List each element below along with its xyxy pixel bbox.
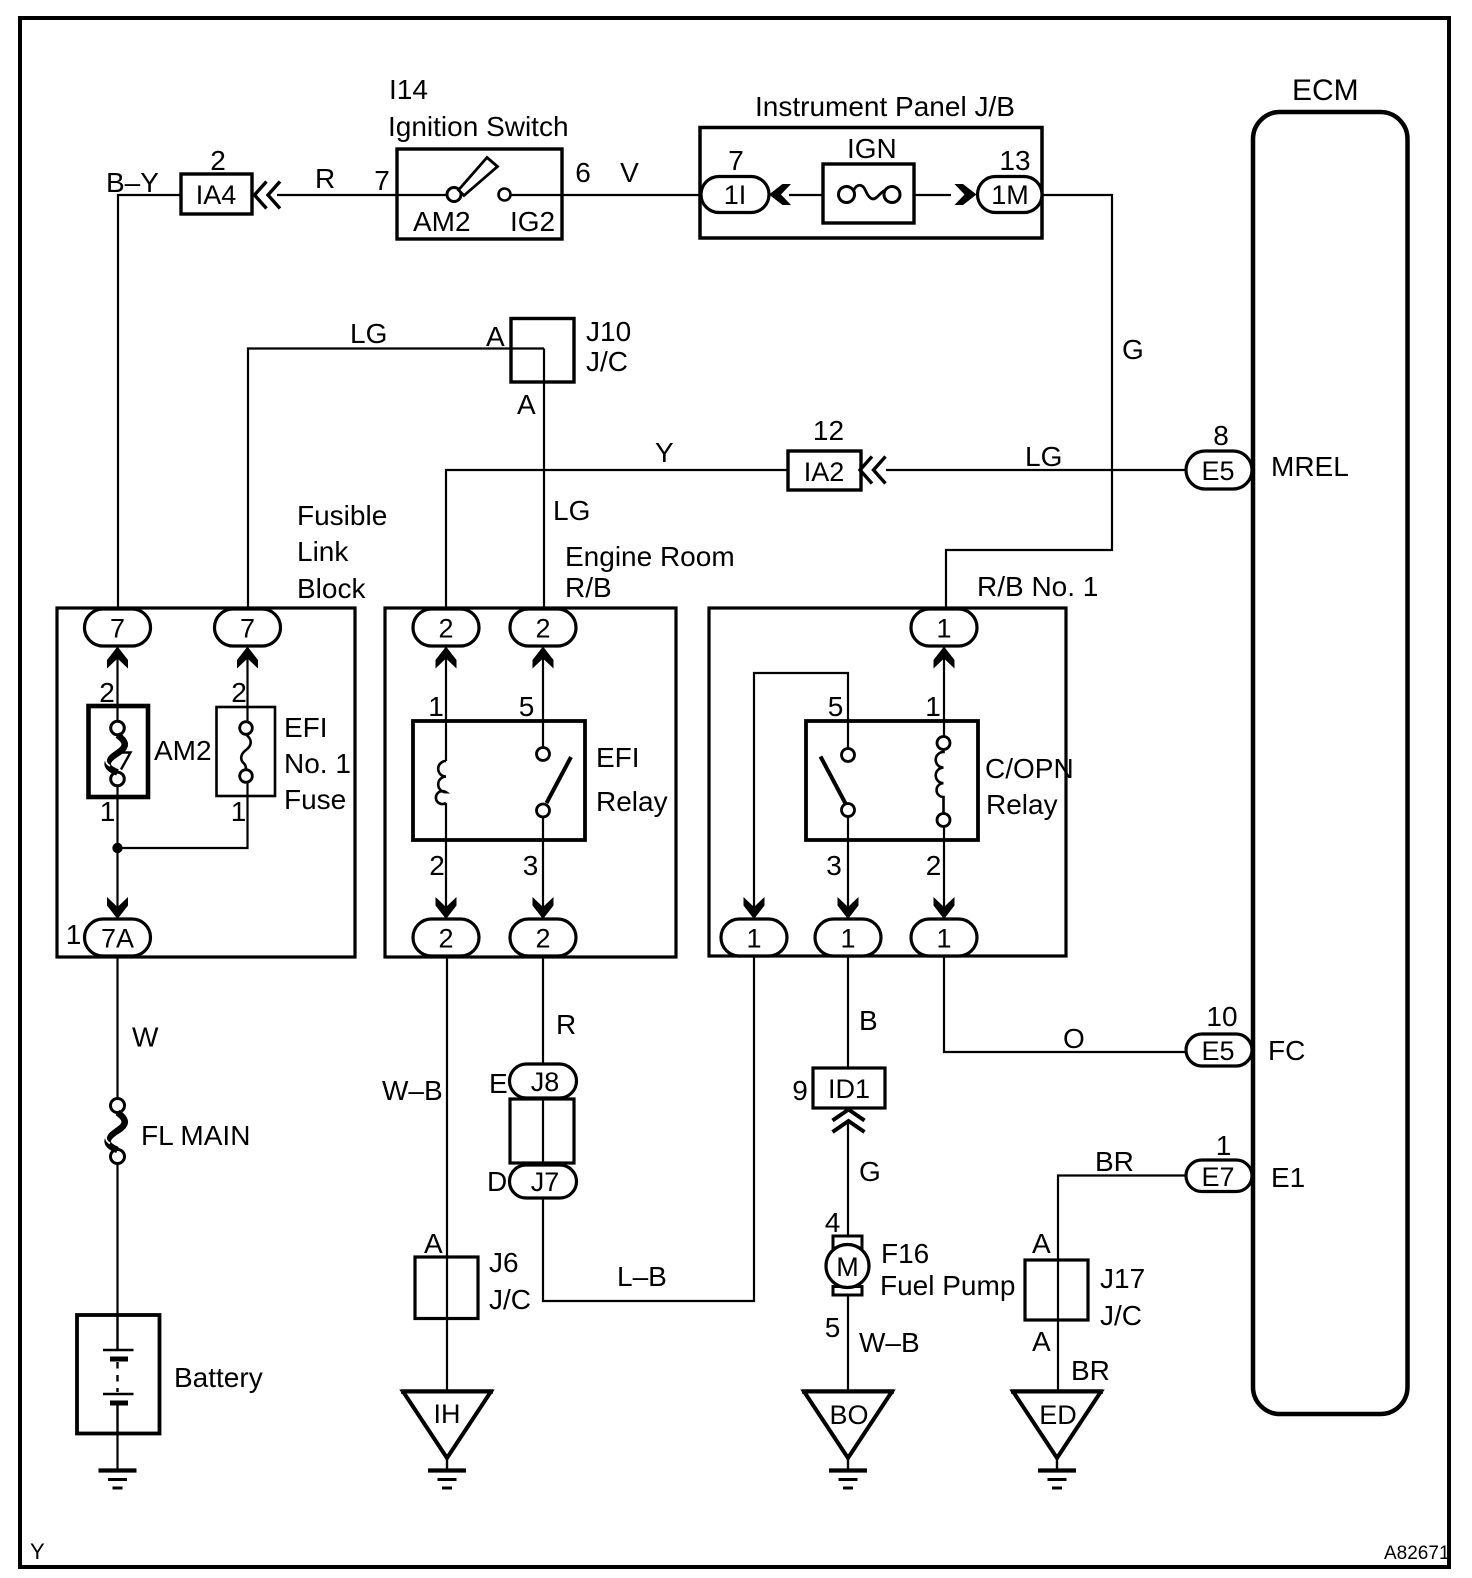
wire BR: E7 to J17 to ED	[1058, 1176, 1186, 1392]
svg-text:2: 2	[535, 614, 550, 644]
svg-text:7: 7	[728, 145, 744, 176]
svg-text:AM2: AM2	[154, 735, 212, 766]
wire inside ignition switch to AM2 contact	[397, 194, 448, 196]
svg-text:A: A	[1032, 1326, 1051, 1357]
connector oval FLB 7 right	[215, 609, 281, 646]
svg-text:Ignition Switch: Ignition Switch	[388, 111, 569, 142]
svg-text:2: 2	[438, 614, 453, 644]
C/OPN relay switch	[821, 749, 855, 817]
svg-text:J7: J7	[531, 1167, 560, 1197]
svg-text:Engine Room: Engine Room	[565, 541, 735, 572]
svg-text:5: 5	[825, 1312, 841, 1343]
wire W-B: fuel pump to BO	[847, 1295, 849, 1392]
svg-text:2: 2	[429, 850, 445, 881]
svg-text:IA4: IA4	[196, 180, 237, 210]
svg-text:A82671: A82671	[1384, 1543, 1450, 1564]
connector IA2 box	[788, 451, 861, 490]
svg-text:2: 2	[210, 145, 226, 176]
connector oval RB1 1 top	[911, 609, 977, 646]
arrow out RB1 1 far left	[744, 897, 765, 919]
EFI relay coil	[436, 761, 446, 804]
connector oval J7	[510, 1165, 577, 1198]
svg-text:2: 2	[438, 924, 453, 954]
connector oval J8	[510, 1064, 577, 1098]
svg-text:E7: E7	[1201, 1162, 1234, 1192]
svg-text:M: M	[836, 1252, 859, 1282]
wire W: 7A to FL MAIN	[116, 956, 118, 1099]
svg-text:I14: I14	[389, 74, 428, 105]
svg-text:FC: FC	[1268, 1035, 1305, 1066]
svg-text:BR: BR	[1095, 1146, 1134, 1177]
connector oval FLB 7 left	[85, 609, 151, 646]
svg-text:B–Y: B–Y	[106, 167, 159, 198]
svg-text:1: 1	[925, 691, 941, 722]
svg-text:E5: E5	[1201, 456, 1234, 486]
arrow out FLB 7A	[107, 897, 128, 919]
svg-text:A: A	[486, 321, 505, 352]
svg-text:A: A	[1032, 1228, 1051, 1259]
svg-text:4: 4	[825, 1207, 841, 1238]
ground BO triangle	[802, 1392, 894, 1489]
svg-text:G: G	[859, 1156, 881, 1187]
fusible link FL MAIN symbol	[106, 1099, 125, 1164]
svg-text:E: E	[489, 1068, 508, 1099]
connector oval 1I	[701, 177, 769, 213]
connector oval RB1 1 bottom far left	[721, 919, 787, 956]
svg-text:1: 1	[1216, 1130, 1232, 1161]
svg-text:G: G	[1122, 334, 1144, 365]
svg-text:9: 9	[792, 1075, 808, 1106]
svg-text:Y: Y	[30, 1539, 45, 1564]
svg-text:ID1: ID1	[828, 1074, 870, 1104]
svg-text:W–B: W–B	[859, 1327, 920, 1358]
connector ID1 box	[813, 1068, 885, 1108]
connector oval 1M	[978, 177, 1043, 213]
svg-text:1: 1	[746, 924, 761, 954]
chevrons ID1	[833, 1110, 865, 1133]
svg-text:LG: LG	[1025, 441, 1062, 472]
svg-text:LG: LG	[350, 318, 387, 349]
arrow out ERB 2 right	[533, 897, 554, 919]
connector oval ERB 2 bottom left	[413, 919, 479, 956]
svg-text:5: 5	[519, 691, 535, 722]
connector IA4 box	[181, 174, 252, 214]
svg-text:1: 1	[66, 919, 82, 950]
wire Y: to IA2	[446, 470, 788, 609]
connector oval ERB 2 top right	[510, 609, 576, 646]
svg-text:W: W	[132, 1022, 159, 1053]
ground battery	[99, 1471, 137, 1489]
svg-text:1: 1	[840, 924, 855, 954]
svg-text:A: A	[424, 1228, 443, 1259]
wire O: RB1 to E5 FC	[944, 956, 1186, 1052]
wire C/OPN switch to bottom 1	[847, 817, 849, 920]
arrow out RB1 1 right	[934, 897, 955, 919]
svg-text:7A: 7A	[101, 924, 134, 954]
svg-text:J/C: J/C	[1100, 1300, 1142, 1331]
connector oval ERB 2 top left	[413, 609, 479, 646]
svg-text:F16: F16	[881, 1238, 929, 1269]
svg-text:Fuel Pump: Fuel Pump	[880, 1270, 1015, 1301]
svg-text:Relay: Relay	[986, 789, 1058, 820]
svg-text:AM2: AM2	[413, 206, 471, 237]
svg-text:R: R	[315, 163, 335, 194]
connector oval RB1 1 bottom middle	[815, 919, 881, 956]
ground ED triangle	[1011, 1392, 1103, 1489]
fuse EFI No.1 symbol	[240, 722, 253, 783]
AM2 fusible link box	[89, 706, 149, 797]
svg-text:Fuse: Fuse	[284, 784, 346, 815]
wire R: ERB 2 to J8/J7	[542, 956, 544, 1165]
fusible link block box	[57, 500, 387, 957]
connector oval FLB 7A	[85, 919, 151, 956]
chevrons IA4	[255, 182, 281, 209]
ground IH triangle	[401, 1392, 493, 1489]
wire C/OPN switch pin5 jog	[754, 673, 848, 919]
svg-text:IG2: IG2	[510, 206, 555, 237]
svg-text:J8: J8	[531, 1067, 560, 1097]
wire FL MAIN to battery	[116, 1163, 118, 1315]
svg-text:1: 1	[231, 796, 247, 827]
wire LG: IA2 to E5 MREL	[886, 469, 1186, 471]
svg-text:MREL: MREL	[1271, 451, 1349, 482]
svg-text:J/C: J/C	[586, 346, 628, 377]
svg-text:5: 5	[828, 691, 844, 722]
svg-text:E5: E5	[1201, 1036, 1234, 1066]
ignition switch IG2 contact	[499, 189, 511, 201]
wire LG from J10 down to engine room R/B	[543, 349, 545, 610]
wire B: RB1 to ID1	[847, 956, 849, 1068]
svg-text:2: 2	[99, 677, 115, 708]
arrow into 1M	[955, 184, 977, 205]
svg-text:IA2: IA2	[804, 457, 845, 487]
svg-text:FL MAIN: FL MAIN	[141, 1120, 250, 1151]
svg-text:1I: 1I	[724, 180, 747, 210]
svg-text:Link: Link	[297, 536, 349, 567]
wire RB1 1 to C/OPN coil	[943, 646, 945, 737]
svg-text:Instrument Panel J/B: Instrument Panel J/B	[755, 91, 1015, 122]
junction connector J10 box	[511, 319, 574, 383]
wire IGN fuse to 1M arrow	[914, 194, 951, 196]
wire B-Y to IA4	[118, 195, 181, 609]
fuse IGN symbol	[839, 185, 901, 202]
svg-text:IGN: IGN	[847, 133, 897, 164]
arrow out ERB 2 left	[436, 897, 457, 919]
IGN fuse box	[823, 164, 914, 223]
svg-text:6: 6	[575, 157, 591, 188]
wire V: ignition switch to instrument panel J/B	[562, 194, 702, 196]
svg-text:1M: 1M	[991, 180, 1029, 210]
svg-text:3: 3	[523, 850, 539, 881]
C/OPN relay box	[806, 721, 978, 840]
svg-text:13: 13	[999, 145, 1030, 176]
wire AM2 fuse to 7A	[116, 786, 118, 920]
wire FLB 7 to AM2 fuse	[116, 646, 118, 722]
svg-text:R: R	[556, 1009, 576, 1040]
chevrons IA2	[860, 457, 886, 484]
battery box	[77, 1315, 160, 1434]
svg-text:7: 7	[110, 614, 125, 644]
svg-text:12: 12	[813, 415, 844, 446]
svg-text:J/C: J/C	[489, 1284, 531, 1315]
ECM U1	[1253, 74, 1408, 1414]
wire LG into J10	[248, 349, 544, 610]
junction connector J17 box	[1025, 1260, 1088, 1320]
J8/J7 joint box	[510, 1099, 574, 1163]
connector oval E5 FC pin 10	[1186, 1034, 1252, 1066]
svg-text:V: V	[620, 157, 639, 188]
wire battery to ground	[116, 1434, 118, 1470]
R/B No.1 box	[709, 571, 1098, 956]
connector oval E7 E1 pin 1	[1186, 1160, 1252, 1192]
svg-text:R/B No. 1: R/B No. 1	[977, 571, 1098, 602]
C/OPN relay coil	[936, 737, 950, 827]
svg-text:Battery: Battery	[174, 1362, 263, 1393]
svg-text:7: 7	[240, 614, 255, 644]
wire C/OPN coil to bottom 1	[943, 827, 945, 920]
svg-text:A: A	[517, 389, 536, 420]
ignition switch I14 box	[388, 74, 569, 239]
svg-text:C/OPN: C/OPN	[985, 753, 1074, 784]
ignition switch AM2 contact	[447, 188, 461, 202]
engine room R/B box	[385, 541, 735, 957]
connector oval E5 MREL pin 8	[1186, 451, 1252, 489]
svg-text:L–B: L–B	[617, 1261, 667, 1292]
wire 1I arrow to IGN fuse	[789, 194, 823, 196]
arrow into FLB 7 right	[237, 647, 258, 669]
svg-text:2: 2	[231, 677, 247, 708]
wire FLB 7 to EFI fuse	[246, 646, 248, 722]
svg-text:EFI: EFI	[596, 742, 640, 773]
svg-text:Block: Block	[297, 573, 366, 604]
wire EFI fuse to junction	[118, 782, 248, 848]
arrow into ERB 2 left	[436, 647, 457, 669]
junction dot FLB	[112, 843, 122, 853]
svg-text:EFI: EFI	[284, 712, 328, 743]
svg-text:D: D	[487, 1166, 507, 1197]
svg-text:3: 3	[826, 850, 842, 881]
fuel pump motor F16	[826, 1236, 869, 1295]
svg-text:7: 7	[374, 165, 390, 196]
svg-text:10: 10	[1206, 1001, 1237, 1032]
wire ERB 2 to EFI relay coil	[445, 646, 447, 761]
wire EFI relay switch to bottom 2	[542, 817, 544, 919]
ignition switch lever	[459, 158, 498, 196]
svg-text:R/B: R/B	[565, 572, 612, 603]
svg-text:Y: Y	[655, 437, 674, 468]
svg-text:1: 1	[936, 924, 951, 954]
svg-text:B: B	[859, 1005, 878, 1036]
svg-text:E1: E1	[1271, 1162, 1305, 1193]
battery symbol plates	[103, 1315, 134, 1434]
wire ERB 2 to EFI relay switch	[542, 646, 544, 748]
fusible link AM2 symbol	[106, 721, 130, 786]
svg-text:No. 1: No. 1	[284, 748, 351, 779]
svg-text:W–B: W–B	[382, 1075, 443, 1106]
svg-text:ED: ED	[1039, 1400, 1077, 1430]
svg-text:LG: LG	[553, 495, 590, 526]
svg-text:1: 1	[428, 691, 444, 722]
svg-text:IH: IH	[434, 1399, 461, 1429]
svg-text:BO: BO	[829, 1400, 868, 1430]
svg-text:BR: BR	[1071, 1355, 1110, 1386]
EFI relay box	[413, 721, 585, 840]
arrow into RB1 1	[934, 647, 955, 669]
svg-text:1: 1	[100, 796, 116, 827]
wire IG2 contact to box edge	[510, 194, 562, 196]
arrow out RB1 1 middle	[838, 897, 859, 919]
arrow into ERB 2 right	[533, 647, 554, 669]
EFI No.1 fuse box	[217, 707, 276, 796]
EFI relay switch	[537, 748, 572, 818]
svg-text:ECM: ECM	[1292, 74, 1359, 107]
junction connector J6 box	[415, 1257, 478, 1319]
svg-text:J10: J10	[586, 316, 631, 347]
svg-text:J17: J17	[1100, 1263, 1145, 1294]
svg-text:1: 1	[936, 614, 951, 644]
svg-text:J6: J6	[489, 1247, 519, 1278]
wire EFI relay coil to bottom 2	[445, 803, 447, 919]
instrument panel J/B box	[700, 91, 1042, 238]
arrow into FLB 7 left	[107, 647, 128, 669]
connector oval ERB 2 bottom right	[510, 919, 576, 956]
svg-text:O: O	[1063, 1023, 1085, 1054]
svg-text:2: 2	[535, 924, 550, 954]
arrow into 1I	[769, 184, 791, 205]
connector oval RB1 1 bottom right	[911, 919, 977, 956]
wire G: ID1 to fuel pump	[847, 1121, 849, 1236]
wire R: IA4 chevron to ignition switch	[277, 194, 397, 196]
svg-text:Relay: Relay	[596, 786, 668, 817]
svg-text:8: 8	[1213, 420, 1229, 451]
wire L-B: J7 to C/OPN pin5 branch	[543, 956, 754, 1301]
wire W-B: ERB 2 to J6 to IH	[446, 956, 448, 1392]
svg-text:Fusible: Fusible	[297, 500, 387, 531]
svg-text:2: 2	[926, 850, 942, 881]
wire G: 1M to corner down to R/B No.1	[946, 195, 1112, 609]
